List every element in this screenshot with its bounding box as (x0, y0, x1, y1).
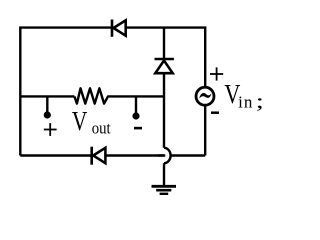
svg-text:out: out (92, 120, 111, 138)
svg-text:;: ; (256, 90, 264, 113)
svg-text:V: V (72, 106, 88, 136)
svg-text:in: in (238, 92, 253, 111)
